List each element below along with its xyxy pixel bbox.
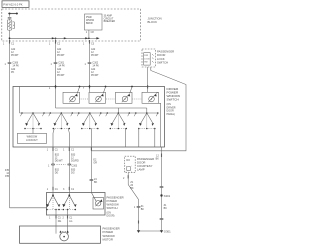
svg-text:14 PK: 14 PK — [12, 64, 19, 67]
svg-text:DO: DO — [126, 159, 130, 162]
svg-text:S301: S301 — [164, 194, 171, 198]
svg-text:BK: BK — [141, 208, 145, 211]
svg-text:14 PK: 14 PK — [92, 64, 99, 67]
svg-text:PK: PK — [11, 71, 15, 74]
svg-text:SWITCH: SWITCH — [167, 98, 179, 102]
svg-text:SWITCH: SWITCH — [107, 206, 118, 210]
svg-text:DG: DG — [71, 172, 75, 175]
svg-text:DG: DG — [58, 220, 62, 223]
svg-text:DG/WT: DG/WT — [55, 160, 64, 163]
svg-text:SWITCH: SWITCH — [157, 60, 168, 64]
svg-text:BK: BK — [130, 187, 134, 190]
svg-text:C303: C303 — [71, 164, 77, 167]
svg-text:PK/WT: PK/WT — [57, 74, 65, 77]
svg-text:PK/WT: PK/WT — [91, 74, 99, 77]
svg-text:OR: OR — [93, 162, 97, 165]
svg-text:LOCKOUT: LOCKOUT — [26, 139, 38, 142]
svg-text:DOOR): DOOR) — [107, 215, 115, 218]
svg-text:DG: DG — [55, 172, 59, 175]
svg-text:MOTOR: MOTOR — [103, 237, 113, 241]
svg-text:BK: BK — [164, 207, 168, 210]
svg-text:PK/WT: PK/WT — [11, 54, 19, 57]
svg-text:BRKR: BRKR — [86, 22, 93, 25]
svg-text:BK: BK — [156, 157, 160, 160]
svg-text:PK/WT: PK/WT — [57, 54, 65, 57]
svg-text:P/B: P/B — [5, 175, 9, 178]
svg-text:14 PK: 14 PK — [58, 64, 65, 67]
svg-text:G301: G301 — [164, 230, 171, 234]
svg-text:DG/RD: DG/RD — [71, 160, 79, 163]
svg-text:LAMP: LAMP — [137, 167, 145, 171]
svg-text:BLOCK: BLOCK — [148, 20, 158, 24]
svg-text:P/W: P/W — [144, 55, 148, 57]
svg-text:BREAKER: BREAKER — [104, 20, 116, 23]
svg-text:BK: BK — [94, 181, 98, 184]
svg-text:LG: LG — [69, 220, 72, 223]
svg-text:LOCK: LOCK — [144, 58, 150, 60]
svg-text:P/W A22 6.0 PK: P/W A22 6.0 PK — [3, 2, 22, 6]
svg-text:PANEL): PANEL) — [167, 113, 176, 116]
svg-text:SW: SW — [144, 62, 147, 64]
svg-text:PK/WT: PK/WT — [91, 54, 99, 57]
